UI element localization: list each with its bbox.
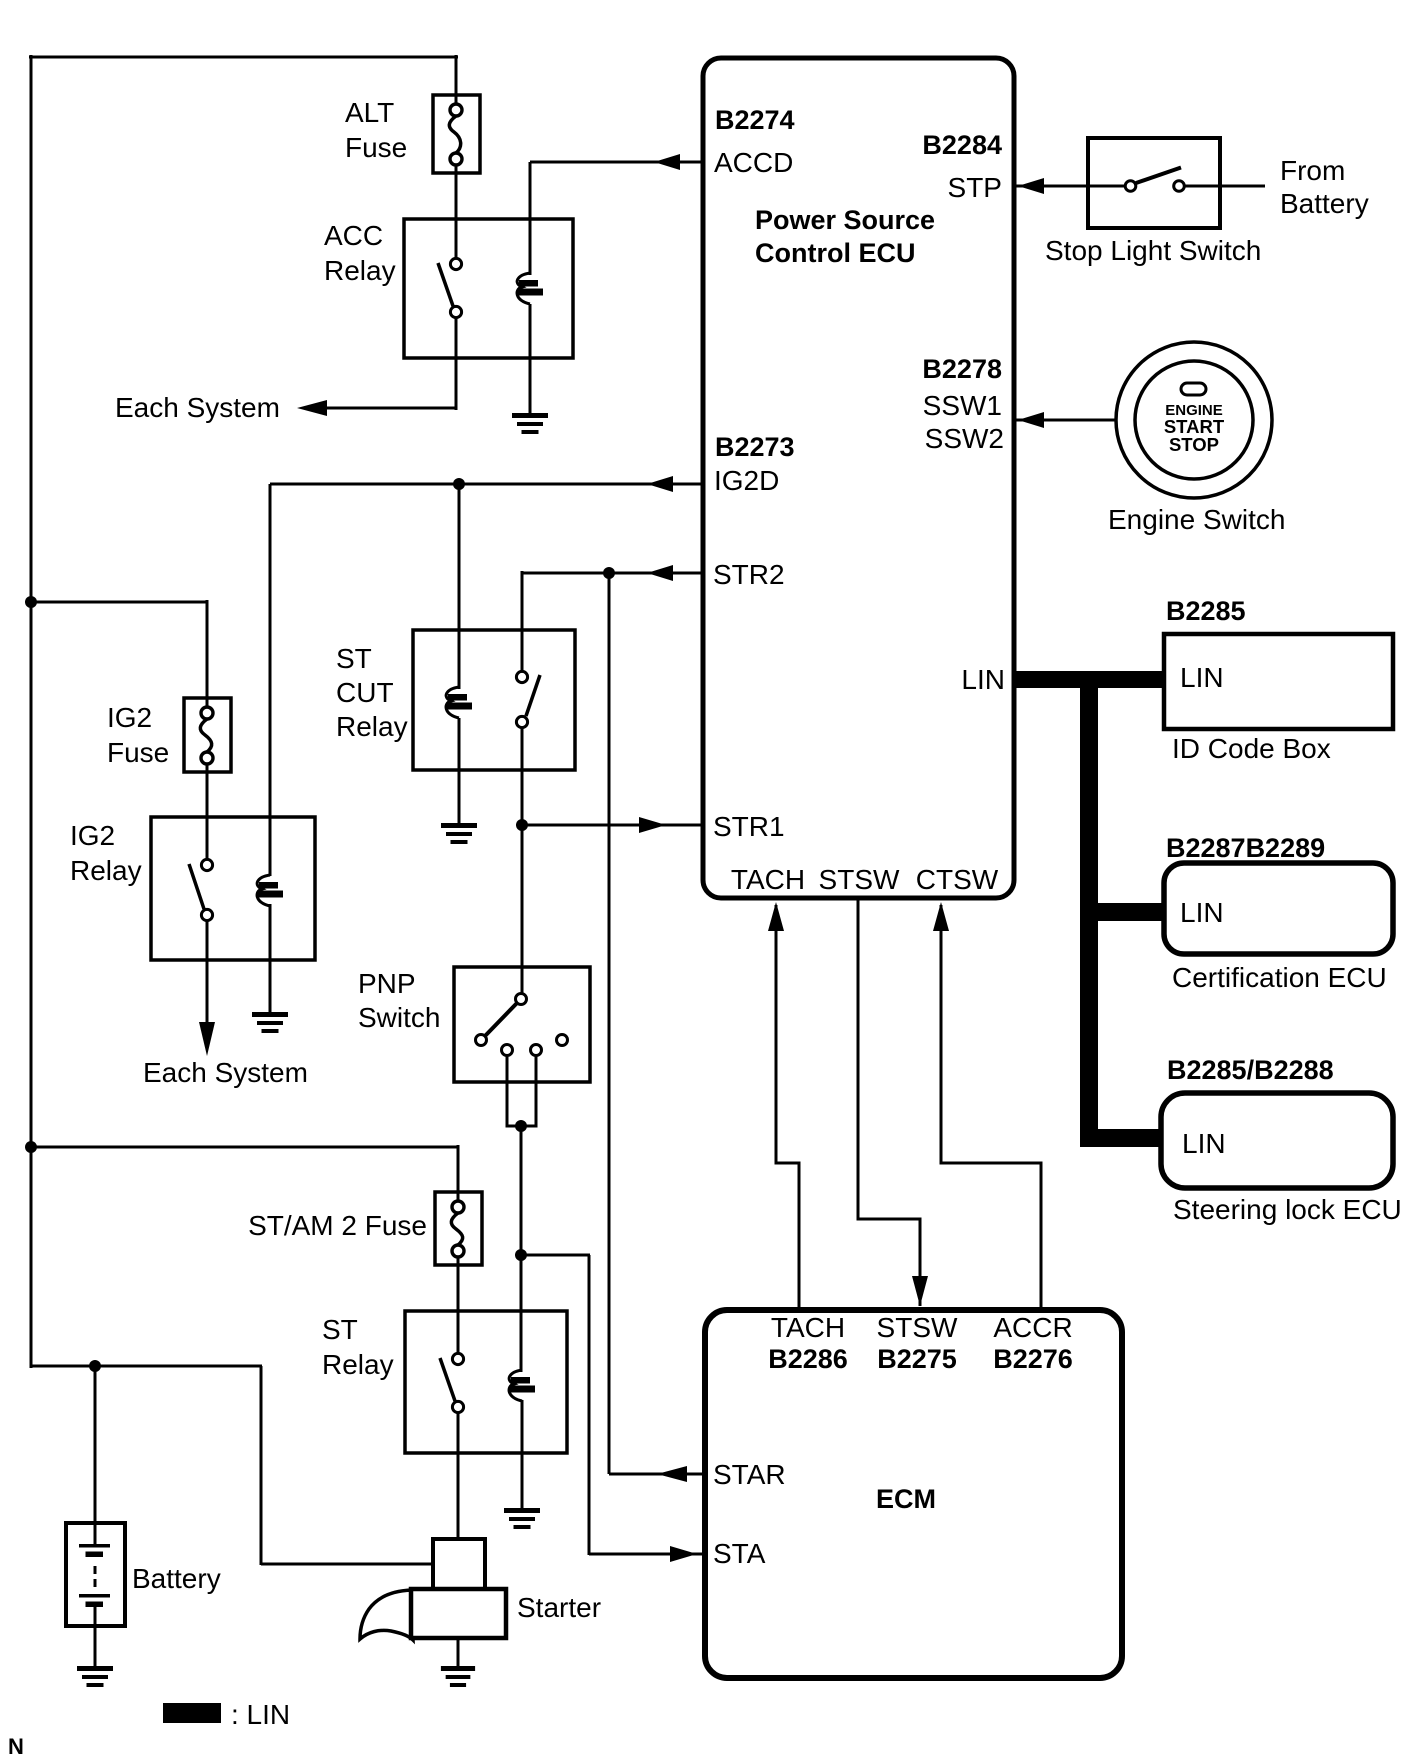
svg-text:IG2: IG2 xyxy=(70,820,115,851)
svg-text:STR1: STR1 xyxy=(713,811,785,842)
svg-text:LIN: LIN xyxy=(1180,662,1224,693)
svg-text:LIN: LIN xyxy=(961,664,1005,695)
svg-text:B2276: B2276 xyxy=(993,1344,1073,1374)
svg-text:Stop Light Switch: Stop Light Switch xyxy=(1045,235,1261,266)
svg-text:Steering lock ECU: Steering lock ECU xyxy=(1173,1194,1402,1225)
svg-text:Switch: Switch xyxy=(358,1002,440,1033)
svg-text:Relay: Relay xyxy=(322,1349,394,1380)
svg-text:ACCR: ACCR xyxy=(993,1312,1072,1343)
svg-text:ACC: ACC xyxy=(324,220,383,251)
svg-text:STAR: STAR xyxy=(713,1459,786,1490)
svg-text:SSW1: SSW1 xyxy=(923,390,1002,421)
svg-text:B2284: B2284 xyxy=(922,130,1002,160)
svg-text:ACCD: ACCD xyxy=(714,147,793,178)
svg-text:Fuse: Fuse xyxy=(345,132,407,163)
svg-text:STSW: STSW xyxy=(819,864,900,895)
svg-text:ECM: ECM xyxy=(876,1484,936,1514)
svg-text:: LIN: : LIN xyxy=(231,1699,290,1730)
svg-text:Relay: Relay xyxy=(336,711,408,742)
svg-text:Battery: Battery xyxy=(1280,188,1369,219)
svg-text:B2278: B2278 xyxy=(922,354,1002,384)
svg-text:STA: STA xyxy=(713,1538,766,1569)
svg-text:Each System: Each System xyxy=(115,392,280,423)
svg-text:Control ECU: Control ECU xyxy=(755,238,915,268)
svg-text:ST: ST xyxy=(336,643,372,674)
svg-text:Starter: Starter xyxy=(517,1592,601,1623)
svg-text:B2287B2289: B2287B2289 xyxy=(1166,833,1325,863)
svg-text:Power Source: Power Source xyxy=(755,205,935,235)
svg-text:IG2D: IG2D xyxy=(714,465,779,496)
svg-text:Fuse: Fuse xyxy=(107,737,169,768)
svg-text:STR2: STR2 xyxy=(713,559,785,590)
svg-text:ALT: ALT xyxy=(345,97,394,128)
svg-text:CUT: CUT xyxy=(336,677,394,708)
svg-text:TACH: TACH xyxy=(771,1312,845,1343)
svg-text:B2273: B2273 xyxy=(715,432,795,462)
svg-text:ST/AM 2 Fuse: ST/AM 2 Fuse xyxy=(248,1210,427,1241)
svg-text:B2285/B2288: B2285/B2288 xyxy=(1167,1055,1334,1085)
svg-text:Relay: Relay xyxy=(70,855,142,886)
svg-text:ID Code Box: ID Code Box xyxy=(1172,733,1331,764)
svg-text:Each System: Each System xyxy=(143,1057,308,1088)
svg-text:Relay: Relay xyxy=(324,255,396,286)
svg-text:SSW2: SSW2 xyxy=(925,423,1004,454)
svg-text:N: N xyxy=(8,1734,24,1759)
svg-text:B2274: B2274 xyxy=(715,105,795,135)
svg-text:ST: ST xyxy=(322,1314,358,1345)
svg-text:B2275: B2275 xyxy=(877,1344,957,1374)
svg-text:TACH: TACH xyxy=(731,864,805,895)
svg-text:B2285: B2285 xyxy=(1166,596,1246,626)
svg-text:CTSW: CTSW xyxy=(916,864,999,895)
svg-text:B2286: B2286 xyxy=(768,1344,848,1374)
svg-text:Engine Switch: Engine Switch xyxy=(1108,504,1285,535)
svg-text:STP: STP xyxy=(948,172,1002,203)
svg-text:LIN: LIN xyxy=(1182,1128,1226,1159)
svg-text:From: From xyxy=(1280,155,1345,186)
svg-text:STSW: STSW xyxy=(877,1312,958,1343)
svg-text:STOP: STOP xyxy=(1169,434,1219,455)
svg-text:PNP: PNP xyxy=(358,968,416,999)
svg-text:LIN: LIN xyxy=(1180,897,1224,928)
svg-text:IG2: IG2 xyxy=(107,702,152,733)
svg-text:Battery: Battery xyxy=(132,1563,221,1594)
svg-text:Certification ECU: Certification ECU xyxy=(1172,962,1387,993)
